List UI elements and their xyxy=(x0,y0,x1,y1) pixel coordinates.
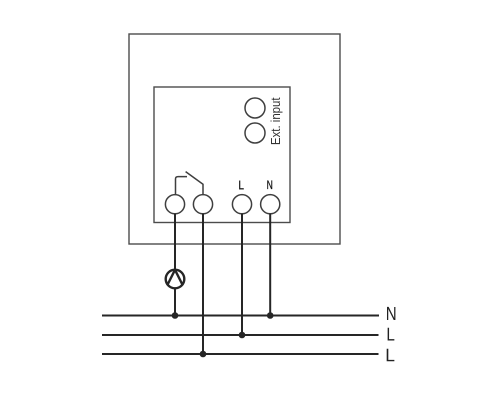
svg-text:Ext. input: Ext. input xyxy=(268,97,283,145)
svg-text:N: N xyxy=(386,304,397,325)
N bus line xyxy=(102,315,379,317)
svg-text:N: N xyxy=(267,178,273,192)
wire from terminal L to middle L bus xyxy=(241,214,243,335)
wire from pump to N bus xyxy=(174,288,176,315)
terminal circle 1 (relay common) xyxy=(165,195,184,214)
Ext. input terminal circle top xyxy=(245,98,265,118)
svg-text:L: L xyxy=(238,177,244,192)
junction dot L wire / middle L bus xyxy=(239,332,246,339)
L bus line (bottom) xyxy=(102,353,379,355)
wire from terminal 1 to pump xyxy=(174,214,176,270)
device inner module box xyxy=(154,87,290,223)
svg-text:L: L xyxy=(385,345,395,365)
pump motor symbol M1 xyxy=(166,270,185,289)
device outer enclosure box xyxy=(129,34,340,244)
svg-text:L: L xyxy=(386,324,395,345)
wire from terminal 2 to bottom L bus xyxy=(202,214,204,354)
junction dot relay wire / bottom L bus xyxy=(200,351,207,358)
Ext. input terminal circle bottom xyxy=(245,123,265,143)
wire from terminal N to N bus xyxy=(269,214,271,316)
terminal circle 4 (N) xyxy=(261,195,280,214)
relay switch symbol xyxy=(176,172,204,195)
junction dot pump wire / N bus xyxy=(172,312,179,319)
terminal circle 2 (relay NO) xyxy=(193,195,212,214)
junction dot N wire / N bus xyxy=(267,312,274,319)
L bus line (middle) xyxy=(102,334,379,336)
terminal circle 3 (L) xyxy=(232,195,251,214)
